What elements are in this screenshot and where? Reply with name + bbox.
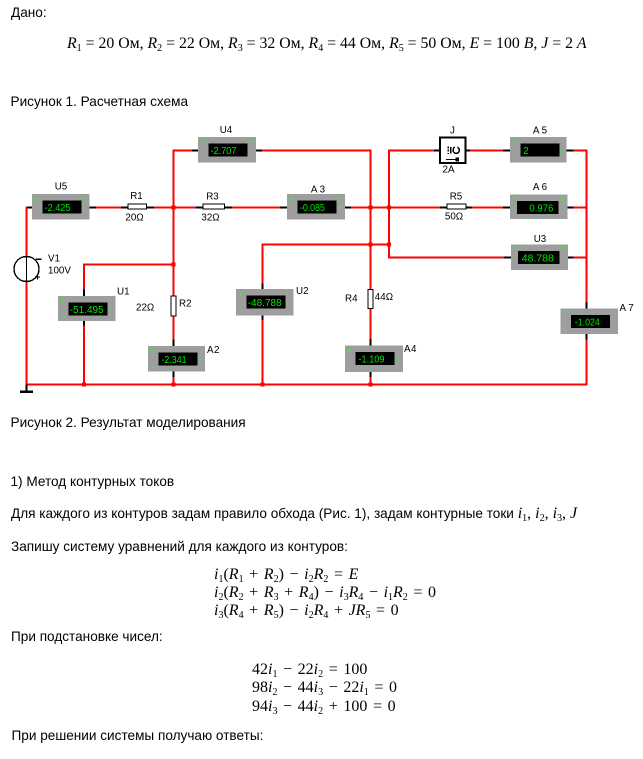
- meter U5 body: [32, 194, 90, 220]
- wire: A4 bottom to bus: [370, 366, 372, 378]
- svg-text:-1.109: -1.109: [359, 354, 385, 365]
- wire: A6 to right bus: [567, 207, 575, 209]
- svg-text:A4: A4: [404, 344, 417, 355]
- svg-text:0.976: 0.976: [529, 203, 553, 214]
- svg-text:v: v: [82, 203, 86, 212]
- svg-text:44Ω: 44Ω: [375, 292, 393, 303]
- wire: A7 bottom to bus: [586, 328, 588, 341]
- svg-text:-2.341: -2.341: [162, 355, 187, 366]
- node: junction main row x389: [387, 206, 391, 210]
- node: junction U1 branch x173: [172, 263, 176, 267]
- wire: U4 right, corner down x=370.5 to R4: [256, 150, 263, 152]
- wire: U5 left stub: [26, 207, 33, 209]
- node: junction main row x370: [369, 206, 373, 210]
- resistor R1: [121, 204, 154, 209]
- svg-text:-2.425: -2.425: [45, 203, 71, 214]
- wire: A5 to right bus corner: [567, 150, 575, 152]
- svg-text:A 6: A 6: [533, 182, 548, 193]
- resistor R2 (vertical): [171, 296, 176, 316]
- node: junction U2 row x370: [369, 243, 373, 247]
- resistor R4 (vertical): [368, 290, 373, 309]
- wire: U2 top branch y=244.5: [262, 244, 264, 285]
- meter A7 body: [561, 309, 619, 335]
- wire: J branch vertical x=389: [388, 150, 390, 259]
- svg-text:v: v: [513, 253, 517, 262]
- svg-text:U5: U5: [55, 182, 68, 193]
- svg-text:-1.024: -1.024: [575, 317, 601, 328]
- meter U2 body: [236, 289, 294, 316]
- svg-text:A 7: A 7: [620, 303, 634, 314]
- wire: x=389 corner to U3: [388, 257, 505, 259]
- svg-text:-2.707: -2.707: [211, 146, 237, 157]
- node: junction main row / trunk x173: [172, 206, 176, 210]
- svg-text:-0.085: -0.085: [300, 203, 325, 214]
- svg-text:U1: U1: [117, 287, 130, 298]
- wire: R1 to R3: [153, 207, 197, 209]
- svg-text:2: 2: [523, 146, 528, 157]
- wire: V1 to ground bus: [26, 282, 28, 386]
- svg-text:v: v: [108, 304, 112, 313]
- svg-text:R2: R2: [179, 299, 192, 310]
- svg-text:R4: R4: [345, 294, 358, 305]
- svg-text:A2: A2: [207, 345, 220, 356]
- svg-text:U2: U2: [296, 286, 309, 297]
- wire: U5 right to R1: [90, 207, 98, 209]
- wire: right bus vertical x=586.5: [586, 150, 588, 303]
- meter U1 body: [58, 296, 116, 321]
- wire: R4 bottom to A4: [370, 308, 372, 340]
- meter U4 body: [198, 137, 256, 163]
- svg-text:100V: 100V: [48, 266, 71, 277]
- meter A6 body: [510, 195, 568, 220]
- wire: R3 to A3: [231, 207, 280, 209]
- svg-text:22Ω: 22Ω: [136, 303, 154, 314]
- svg-text:v: v: [286, 298, 290, 307]
- wire: J to A5: [466, 150, 472, 152]
- svg-text:U4: U4: [220, 125, 233, 136]
- wire: U1 bottom to bus: [83, 316, 85, 327]
- meter U3 body: [511, 245, 568, 271]
- node: bus junction A4: [369, 383, 373, 387]
- svg-text:V1: V1: [48, 254, 60, 265]
- resistor R3: [196, 204, 232, 209]
- wire: A3 to R5: [345, 207, 352, 209]
- svg-text:v: v: [249, 146, 253, 155]
- svg-text:R3: R3: [206, 192, 219, 203]
- wire: U1 top: [83, 264, 85, 291]
- resistor R5: [440, 204, 472, 209]
- meter A2 body: [148, 346, 205, 372]
- wire: U2 bottom to bus: [262, 310, 264, 322]
- svg-text:20Ω: 20Ω: [125, 213, 143, 224]
- svg-text:48.788: 48.788: [522, 253, 554, 264]
- wire: U1 branch horizontal y=264.5: [83, 264, 175, 266]
- current source J: [440, 138, 466, 164]
- node: bus junction A2: [172, 383, 176, 387]
- svg-text:J: J: [450, 126, 455, 137]
- svg-text:32Ω: 32Ω: [201, 213, 219, 224]
- voltage source V1: [14, 256, 42, 283]
- svg-text:50Ω: 50Ω: [445, 212, 463, 223]
- svg-text:-48.788: -48.788: [248, 298, 282, 309]
- node: bus junction U2: [261, 383, 265, 387]
- svg-text:A 5: A 5: [533, 126, 548, 137]
- wire: left branch down to V1: [26, 207, 28, 257]
- svg-text:R1: R1: [130, 191, 143, 202]
- svg-text:A 3: A 3: [311, 185, 326, 196]
- wire: A7 top stub: [586, 301, 588, 303]
- wire: A2 bottom to bus: [173, 366, 175, 378]
- meter A3 body: [287, 194, 345, 220]
- svg-text:2A: 2A: [443, 164, 455, 175]
- svg-text:R5: R5: [450, 192, 463, 203]
- meter A4 body: [345, 346, 403, 373]
- meter A5 body: [510, 137, 567, 162]
- svg-text:U3: U3: [534, 234, 547, 245]
- wire: R2 bottom to A2: [173, 316, 175, 341]
- wire: U4 left and vertical trunk x=173.5: [191, 150, 198, 152]
- node: bus junction U1: [82, 383, 86, 387]
- wire: R5 to A6: [472, 207, 504, 209]
- svg-text:-51.495: -51.495: [70, 305, 104, 316]
- wire: bottom ground bus: [26, 384, 588, 386]
- wire: U3 right to bus: [568, 257, 575, 259]
- node: junction U2 row x389: [387, 243, 391, 247]
- ground: [20, 385, 33, 392]
